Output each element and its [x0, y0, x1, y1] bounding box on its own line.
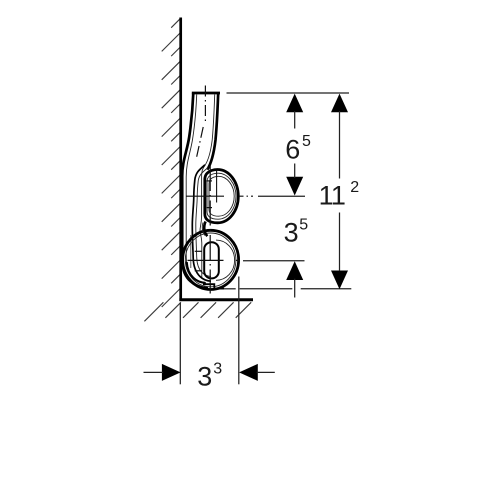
extension line B: [258, 195, 305, 197]
dimension 6-5 arrows: [286, 94, 303, 196]
floor line: [179, 298, 253, 301]
waist inner thin: [202, 223, 205, 236]
pipe right outer wall: [207, 93, 218, 170]
svg-text:3: 3: [197, 362, 212, 392]
vertical centerline tilt: [196, 127, 203, 159]
outlet step: [203, 284, 224, 288]
pipe left outer wall: [182, 93, 208, 288]
dimension 11-2 arrows: [331, 94, 348, 290]
dimension 3-3 arrows: [162, 364, 258, 381]
ball joint 1 socket line: [209, 176, 234, 216]
ball joint 1 outer housing: [205, 170, 239, 223]
svg-text:3: 3: [284, 218, 299, 248]
ball joint 1 inner shell line: [207, 173, 236, 219]
channel left extra thin: [190, 235, 192, 268]
waist between balls: [204, 222, 207, 237]
pipe left inner line: [186, 95, 206, 284]
vertical centerline top: [204, 86, 206, 124]
ball 2 flange tick upper: [195, 250, 202, 252]
svg-text:3: 3: [213, 361, 222, 378]
svg-text:5: 5: [299, 217, 308, 234]
vertical centerline main axis: [209, 166, 211, 294]
wall face line: [179, 18, 182, 302]
pipe right inner line: [202, 95, 215, 177]
channel right thin line: [200, 176, 202, 278]
extension line D: [224, 288, 351, 290]
wall hatching: [162, 18, 181, 307]
svg-text:2: 2: [350, 179, 359, 196]
bottom extension lines: [179, 303, 181, 385]
ball joint 2 inner ball: [216, 240, 235, 280]
pipe top cap: [192, 92, 220, 95]
ball joint 2 outer circle: [183, 230, 239, 289]
ball 2 flange tick lower: [195, 270, 202, 272]
ball 1 pipe edge vertical: [216, 171, 218, 203]
extension line C: [243, 260, 305, 262]
extension line A top: [227, 92, 350, 94]
ball 1 horizontal centerline: [186, 195, 253, 197]
svg-text:11: 11: [319, 181, 346, 211]
dimension 3-5 lower arrow: [286, 261, 303, 280]
ball 1 flange tick upper: [206, 180, 212, 182]
svg-text:6: 6: [285, 135, 300, 165]
ball 1 flange tick lower: [206, 207, 212, 209]
channel inner wall medium: [192, 165, 211, 281]
outlet bend thick: [187, 262, 206, 283]
channel inner wall thin: [196, 168, 211, 277]
svg-text:5: 5: [302, 133, 311, 150]
ball joint 2 cartridge: [204, 242, 219, 278]
ball 2 horizontal centerline: [188, 259, 242, 261]
ball joint 2 inner shell: [185, 233, 236, 287]
floor hatching: [144, 302, 251, 321]
